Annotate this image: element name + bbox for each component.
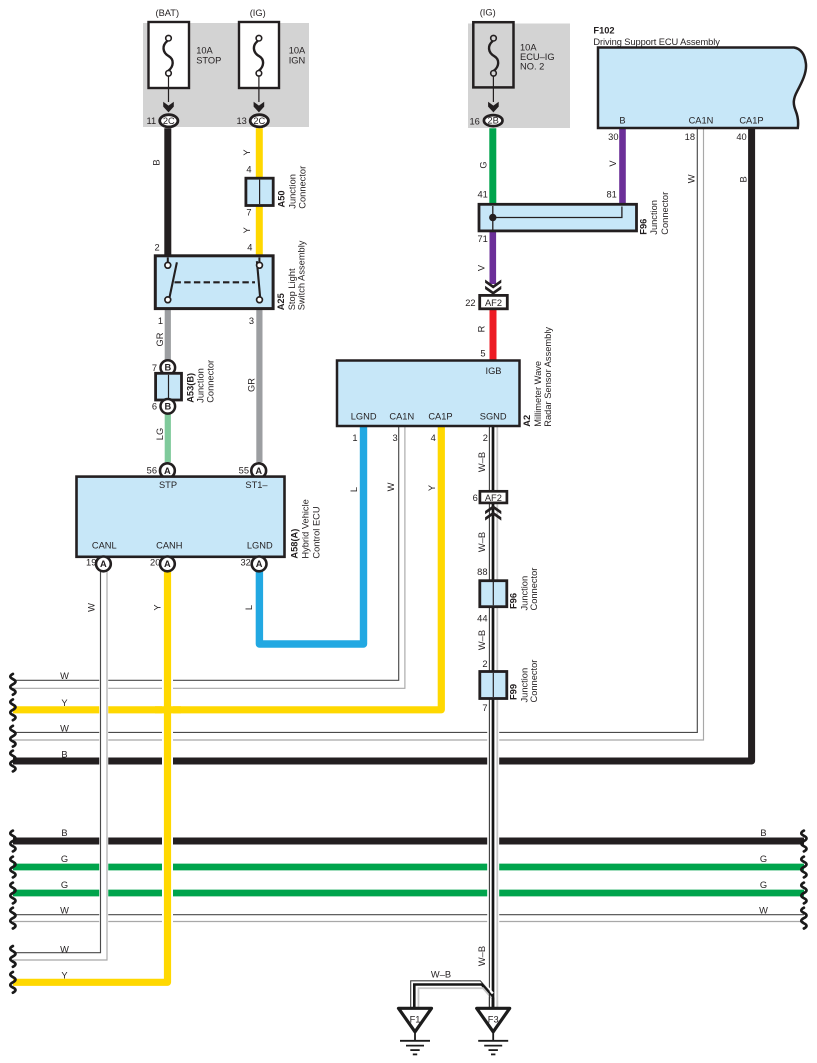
svg-text:B: B (738, 176, 748, 182)
svg-text:CA1P: CA1P (739, 115, 763, 125)
svg-text:Millimeter Wave: Millimeter Wave (533, 361, 543, 427)
svg-text:W: W (60, 944, 69, 954)
fuse 3 ECU-IG (473, 22, 513, 126)
shield chevrons above AF2 22 (485, 280, 501, 295)
svg-text:W–B: W–B (431, 969, 451, 979)
svg-text:1: 1 (158, 316, 163, 326)
svg-text:ECU–IG: ECU–IG (520, 52, 555, 62)
svg-text:Junction: Junction (519, 668, 529, 703)
svg-text:1: 1 (352, 433, 357, 443)
wire R from AF2 to A2 IGB pin5 (490, 309, 497, 361)
svg-text:Radar Sensor Assembly: Radar Sensor Assembly (543, 327, 553, 427)
svg-text:6: 6 (152, 402, 157, 412)
fuse 2 IGN (239, 22, 279, 127)
svg-text:Y: Y (427, 485, 437, 491)
A53(B) junction connector (156, 360, 182, 413)
A50 junction connector (246, 178, 273, 205)
svg-text:10A: 10A (289, 45, 306, 55)
svg-text:V: V (476, 264, 486, 271)
wire GR from A25 pin3 to pin55 (256, 309, 262, 463)
wire bus W (F102 CA1N to left edge) (13, 128, 704, 740)
wire G from fuse 16-2B to F96 pin41 (489, 128, 496, 205)
svg-text:4: 4 (431, 433, 436, 443)
svg-text:NO. 2: NO. 2 (520, 62, 544, 72)
svg-text:A58(A): A58(A) (289, 529, 299, 559)
svg-text:F96: F96 (638, 219, 648, 235)
svg-text:A: A (164, 559, 171, 569)
wire W-B (A2 SGND down to ground F3) (489, 426, 497, 1009)
svg-text:W–B: W–B (477, 452, 487, 472)
svg-text:R: R (476, 325, 486, 332)
svg-text:A50: A50 (276, 190, 286, 207)
F102 Driving Support ECU Assembly box (598, 48, 806, 129)
svg-text:A: A (255, 466, 262, 476)
svg-text:A25: A25 (276, 293, 286, 310)
svg-text:LGND: LGND (351, 411, 377, 421)
svg-text:B: B (760, 828, 766, 838)
svg-text:Y: Y (61, 971, 67, 981)
svg-text:30: 30 (608, 132, 618, 142)
svg-text:Control ECU: Control ECU (311, 506, 321, 558)
wire bus W (A2 CA1N to left edge) (13, 426, 405, 688)
svg-text:Hybrid Vehicle: Hybrid Vehicle (301, 499, 311, 558)
svg-text:GR: GR (247, 378, 257, 392)
svg-text:B: B (619, 115, 625, 125)
svg-text:6: 6 (473, 493, 478, 503)
svg-text:3: 3 (249, 316, 254, 326)
svg-text:G: G (760, 880, 767, 890)
svg-text:LG: LG (155, 428, 165, 440)
svg-text:W: W (60, 671, 69, 681)
svg-text:Y: Y (61, 698, 67, 708)
svg-text:F99: F99 (509, 684, 519, 700)
svg-text:4: 4 (246, 165, 251, 175)
svg-text:Driving Support ECU Assembly: Driving Support ECU Assembly (593, 37, 720, 47)
wire Y from A50 to A25 pin4 (256, 205, 263, 256)
wire bus B (F102 CA1P to left edge) (13, 128, 752, 761)
wire W CANL (A58 pin19 down to left edge) (13, 571, 107, 960)
F96 junction connector (large) (479, 204, 637, 231)
lower bus group: wire B (13, 838, 804, 845)
svg-text:2C: 2C (253, 116, 265, 126)
svg-text:13: 13 (236, 116, 246, 126)
svg-text:Connector: Connector (529, 568, 539, 611)
svg-text:7: 7 (246, 208, 251, 218)
svg-text:88: 88 (477, 567, 487, 577)
svg-text:AF2: AF2 (485, 298, 502, 308)
svg-text:4: 4 (247, 242, 252, 252)
svg-text:Junction: Junction (196, 368, 206, 403)
svg-text:B: B (164, 363, 171, 373)
A2 Millimeter Wave Radar Sensor Assembly box (337, 361, 520, 427)
svg-text:B: B (164, 401, 171, 411)
svg-text:44: 44 (477, 614, 487, 624)
svg-text:A2: A2 (522, 415, 532, 427)
svg-text:G: G (478, 161, 488, 168)
A58(A) hybrid vehicle control ECU box (77, 477, 285, 557)
svg-text:16: 16 (469, 117, 479, 127)
svg-text:A: A (164, 466, 171, 476)
svg-text:2: 2 (155, 242, 160, 252)
svg-text:40: 40 (736, 132, 746, 142)
svg-text:Connector: Connector (529, 660, 539, 703)
svg-text:(IG): (IG) (480, 8, 496, 18)
svg-text:3: 3 (393, 433, 398, 443)
svg-text:SGND: SGND (480, 411, 507, 421)
svg-text:Y: Y (152, 604, 162, 610)
svg-text:L: L (349, 487, 359, 492)
svg-text:B: B (61, 749, 67, 759)
svg-text:CANH: CANH (156, 540, 182, 550)
svg-text:ST1–: ST1– (245, 480, 268, 490)
svg-text:W–B: W–B (477, 946, 487, 966)
svg-text:LGND: LGND (247, 540, 273, 550)
wire V from F96 pin71 to AF2 (489, 231, 496, 285)
svg-text:18: 18 (685, 132, 695, 142)
wire G (13, 890, 804, 897)
svg-text:W: W (60, 905, 69, 915)
svg-text:32: 32 (240, 558, 250, 568)
wire W (13, 915, 804, 922)
wire LG from A53(B) pin6 to pin56 (165, 413, 171, 462)
ground F3 (477, 1008, 510, 1054)
ground F1 (399, 1008, 432, 1054)
svg-text:71: 71 (477, 234, 487, 244)
svg-text:W: W (686, 174, 696, 183)
svg-text:CANL: CANL (92, 540, 117, 550)
pin 32 circle A (252, 557, 267, 572)
svg-text:2B: 2B (488, 116, 499, 126)
svg-text:B: B (152, 159, 162, 165)
wire Y CANH (A58 pin20 down to left edge) (13, 571, 181, 982)
svg-text:AF2: AF2 (485, 493, 502, 503)
svg-text:5: 5 (480, 349, 485, 359)
svg-text:W–B: W–B (477, 532, 487, 552)
svg-text:W: W (386, 482, 396, 491)
AF2 22 box (480, 295, 508, 308)
svg-text:Junction: Junction (519, 576, 529, 611)
wire V from F102 B pin30 to F96 pin81 (619, 128, 626, 205)
svg-text:GR: GR (155, 332, 165, 346)
svg-text:CA1N: CA1N (689, 115, 714, 125)
TEXT LAYER (60, 8, 768, 981)
svg-text:A: A (100, 559, 107, 569)
pin 56 circle A (160, 463, 175, 478)
svg-text:(BAT): (BAT) (156, 8, 180, 18)
shield chevrons below AF2 6 (485, 505, 501, 520)
wire B from fuse 11-2C to A25 pin2 (164, 128, 171, 256)
svg-text:22: 22 (465, 298, 475, 308)
svg-text:V: V (608, 160, 618, 167)
svg-text:STP: STP (159, 480, 177, 490)
svg-text:F96: F96 (509, 593, 519, 609)
svg-text:G: G (760, 854, 767, 864)
svg-text:Switch Assembly: Switch Assembly (297, 240, 307, 310)
wire W-B branch to ground F1 (411, 981, 498, 1009)
svg-text:10A: 10A (196, 45, 213, 55)
svg-text:L: L (244, 605, 254, 610)
svg-text:Stop Light: Stop Light (287, 268, 297, 310)
svg-text:7: 7 (482, 703, 487, 713)
svg-text:Y: Y (242, 149, 252, 155)
wire bus Y (left edge to A2 CA1P) (13, 426, 441, 710)
svg-text:Junction: Junction (288, 174, 298, 209)
svg-text:Y: Y (242, 227, 252, 233)
svg-text:41: 41 (477, 190, 487, 200)
svg-text:2: 2 (483, 433, 488, 443)
svg-text:W–B: W–B (477, 630, 487, 650)
svg-text:G: G (61, 880, 68, 890)
svg-text:A: A (256, 559, 263, 569)
svg-text:A53(B): A53(B) (185, 373, 195, 403)
F96 junction connector (small) (480, 581, 507, 607)
wire L blue (A58 LGND to A2 LGND) (259, 426, 363, 644)
svg-text:20: 20 (150, 558, 160, 568)
svg-text:W: W (87, 603, 97, 612)
svg-text:7: 7 (152, 363, 157, 373)
svg-text:56: 56 (147, 465, 157, 475)
pin 20 circle A (160, 557, 175, 572)
fuse panel 1 background (143, 23, 309, 127)
svg-text:2: 2 (482, 659, 487, 669)
svg-text:(IG): (IG) (250, 8, 266, 18)
wire G (13, 864, 804, 871)
A25 stop light switch assembly box (155, 256, 273, 309)
svg-text:IGN: IGN (289, 55, 306, 65)
AF2 6 box (480, 491, 507, 503)
svg-text:81: 81 (606, 190, 616, 200)
pin 55 circle A (251, 463, 266, 478)
svg-text:Connector: Connector (298, 166, 308, 209)
svg-text:G: G (61, 854, 68, 864)
fuse 1 STOP (149, 22, 190, 127)
fuse panel 2 background (468, 24, 570, 129)
svg-text:W: W (759, 905, 768, 915)
svg-text:F1: F1 (410, 1014, 421, 1024)
svg-text:W: W (60, 724, 69, 734)
svg-text:11: 11 (147, 116, 157, 126)
F99 junction connector (480, 672, 507, 699)
svg-text:STOP: STOP (196, 55, 221, 65)
svg-text:Connector: Connector (205, 360, 215, 403)
svg-text:10A: 10A (520, 43, 537, 53)
svg-text:2C: 2C (163, 116, 175, 126)
svg-text:IGB: IGB (485, 366, 501, 376)
svg-text:Connector: Connector (660, 192, 670, 235)
svg-text:19: 19 (86, 558, 96, 568)
left edge continuation squiggles upper group (10, 674, 806, 993)
svg-text:CA1P: CA1P (428, 411, 452, 421)
svg-text:55: 55 (239, 465, 249, 475)
pin 19 circle A (96, 557, 111, 572)
svg-text:CA1N: CA1N (389, 411, 414, 421)
svg-text:F3: F3 (488, 1014, 499, 1024)
wire Y from fuse 13-2C to A50 (256, 128, 263, 178)
wire GR from A25 pin1 to A53(B) pin7 (165, 309, 171, 362)
svg-text:F102: F102 (593, 26, 614, 36)
svg-text:B: B (61, 828, 67, 838)
svg-text:Junction: Junction (649, 200, 659, 235)
